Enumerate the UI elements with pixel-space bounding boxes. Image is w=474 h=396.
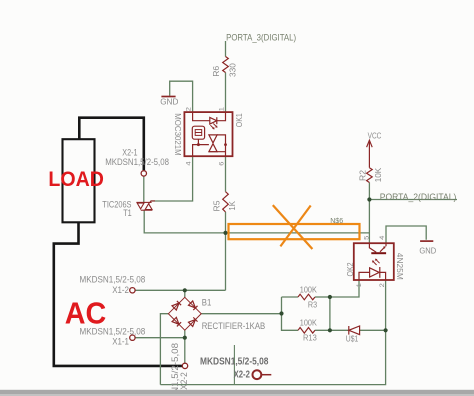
resistor R6 <box>223 57 229 73</box>
svg-text:GND: GND <box>419 246 436 256</box>
node X1-1/bridge bottom junction <box>183 336 187 340</box>
svg-text:U$1: U$1 <box>346 334 359 343</box>
node R13 right junction <box>328 328 332 332</box>
svg-text:B1: B1 <box>202 298 212 308</box>
wire OK1 pin4 to T1 gate <box>150 156 192 201</box>
wire OK2 pin4 to GND2 <box>386 226 426 243</box>
wire bridge bottom stub <box>184 330 186 338</box>
optocoupler OK2 4N25M <box>354 243 394 280</box>
svg-text:4: 4 <box>186 161 193 166</box>
wire X1-1 to bridge bottom <box>135 337 185 339</box>
diode B1 bottom-right <box>188 317 197 326</box>
svg-text:X2-2: X2-2 <box>179 372 189 390</box>
wire node N$6 down to X1-2 net <box>225 233 227 290</box>
svg-text:R3: R3 <box>308 300 318 309</box>
wire R13 to U$1 <box>315 329 349 331</box>
node X1-2/bridge junction <box>183 288 187 292</box>
svg-text:AC: AC <box>65 296 107 331</box>
svg-text:R6: R6 <box>212 65 221 76</box>
svg-text:R5: R5 <box>212 200 221 211</box>
ground GND1 <box>161 96 175 98</box>
wire ghost stub <box>233 345 235 385</box>
wire U$1 to OK2 pin2 node <box>360 329 386 331</box>
svg-text:1K: 1K <box>228 201 237 211</box>
annotation X stroke 2 <box>280 206 310 247</box>
diode B1 top-left <box>172 301 181 310</box>
svg-text:MKDSN1,5/2-5,08: MKDSN1,5/2-5,08 <box>200 356 269 367</box>
svg-text:X1-1: X1-1 <box>112 337 129 347</box>
wire bridge bottom to X2-2 pad <box>184 338 186 364</box>
triac T1 <box>136 201 155 210</box>
wire OK1 pin6 to R5 <box>225 156 227 192</box>
pad X2-2 ghost <box>253 370 262 379</box>
svg-text:MKDSN1,5/2-5,08: MKDSN1,5/2-5,08 <box>105 157 169 167</box>
pad X2-1 <box>141 171 146 176</box>
svg-text:4: 4 <box>379 235 386 240</box>
resistor R5 <box>223 192 229 212</box>
wire OK2 pin1 to R3 <box>330 280 359 297</box>
svg-text:330: 330 <box>229 63 238 77</box>
svg-text:T1: T1 <box>123 208 132 218</box>
svg-text:MKDSN1,5/2-5,08: MKDSN1,5/2-5,08 <box>80 275 146 285</box>
ground GND2 <box>420 240 433 242</box>
node U$1/OK2 pin2 junction <box>384 328 388 332</box>
optocoupler OK1 MOC3021M <box>184 112 232 156</box>
annotation X stroke 1 <box>273 205 313 249</box>
wire PORTA_3 to R6 <box>225 41 227 57</box>
bottom gray bar <box>0 390 474 394</box>
svg-text:1: 1 <box>356 283 363 288</box>
pin X2-2 ghost <box>262 374 272 376</box>
wire R3 right <box>315 296 330 298</box>
svg-text:2: 2 <box>379 283 386 288</box>
svg-text:100K: 100K <box>300 319 317 328</box>
diode B1 top-right <box>188 301 197 310</box>
svg-text:RECTIFIER-1KAB: RECTIFIER-1KAB <box>202 321 266 331</box>
svg-text:X1-2: X1-2 <box>112 285 129 295</box>
svg-text:1: 1 <box>219 107 226 112</box>
pad X1-2 <box>130 288 135 293</box>
svg-text:LOAD: LOAD <box>48 168 104 191</box>
pad X1-1 <box>130 335 135 340</box>
wire R5 to node N$6 <box>225 212 227 233</box>
wire R6 to OK1 pin1 <box>225 73 227 113</box>
svg-text:4N25M: 4N25M <box>395 253 405 280</box>
svg-text:R2: R2 <box>358 170 367 181</box>
wire bottom return <box>160 330 385 384</box>
wire black X2-1 to LOAD top <box>79 118 144 171</box>
LOAD box <box>63 139 95 222</box>
wire OK2 pin2 down <box>385 280 387 330</box>
svg-text:100K: 100K <box>300 286 317 295</box>
highlight box N$6 <box>229 224 360 239</box>
wire X2-1 pad to T1 MT2 <box>143 176 145 202</box>
resistor R3 <box>298 294 315 300</box>
wire N$6 horizontal <box>226 232 370 234</box>
svg-text:2: 2 <box>186 107 193 112</box>
svg-text:OK1: OK1 <box>234 113 244 127</box>
node R3 right junction <box>328 295 332 299</box>
svg-text:10K: 10K <box>374 167 383 182</box>
svg-text:R13: R13 <box>303 334 317 343</box>
wire black LOAD bottom to X2-2 <box>54 222 182 366</box>
wire R3 left to R13 left <box>282 297 299 330</box>
node divider left junction <box>279 311 283 315</box>
wire bridge top stub <box>184 290 186 297</box>
node N$6 junction <box>223 231 227 235</box>
svg-text:MKDSN1,5/2-5,08: MKDSN1,5/2-5,08 <box>80 327 146 337</box>
diode B1 bottom-left <box>172 317 181 326</box>
wire R2 to PORTA_2 node <box>368 183 370 200</box>
resistor R13 <box>298 328 315 334</box>
supply VCC <box>367 140 373 168</box>
svg-text:OK2: OK2 <box>345 262 355 276</box>
svg-text:6: 6 <box>218 161 225 166</box>
resistor R2 <box>367 168 373 183</box>
svg-text:5: 5 <box>363 235 370 240</box>
svg-text:X2-2: X2-2 <box>234 369 251 380</box>
svg-text:PORTA_3(DIGITAL): PORTA_3(DIGITAL) <box>226 33 296 43</box>
svg-text:GND: GND <box>160 96 178 106</box>
wire GND1 to OK1 pin2 <box>170 81 193 112</box>
wire bridge left corner down <box>160 314 168 385</box>
bridge rectifier B1 <box>168 297 201 330</box>
pad X2-2 <box>182 363 187 368</box>
svg-text:VCC: VCC <box>368 131 382 141</box>
wire X1-2 pad to riser <box>135 289 225 291</box>
wire R3 node to R13 node <box>329 297 331 330</box>
wire bridge right to R divider <box>201 313 281 315</box>
svg-text:MOC3021M: MOC3021M <box>173 113 182 156</box>
svg-text:N$6: N$6 <box>330 216 343 225</box>
diode U$1 <box>349 326 360 335</box>
svg-text:PORTA_2(DIGITAL): PORTA_2(DIGITAL) <box>380 192 457 203</box>
wire PORTA_2 node to OK2 pin5 <box>368 200 370 244</box>
wire T1 MT1 to node N$6 <box>144 210 225 233</box>
node PORTA_2 junction <box>367 197 371 201</box>
wire PORTA_2 label <box>369 199 457 201</box>
